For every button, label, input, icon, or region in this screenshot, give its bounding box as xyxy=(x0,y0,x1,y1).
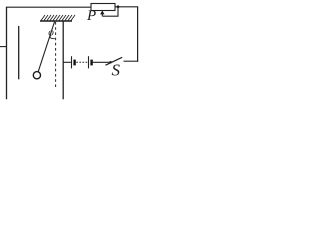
wire (stub at left edge) xyxy=(0,46,7,48)
junction dot (wiper tie to right terminal) xyxy=(117,5,120,8)
wire (wiper to junction) xyxy=(102,7,118,16)
wire (right vertical) xyxy=(137,7,139,62)
pendulum string xyxy=(38,22,54,72)
battery cell 1 (long plate) xyxy=(71,56,73,68)
battery cell 2 (short thick plate) xyxy=(90,60,92,66)
wire (top horizontal from left plate to rheostat) xyxy=(6,6,91,8)
wire (dashed, omitted cells of battery) xyxy=(76,61,87,63)
capacitor plate (middle-left vertical plate) xyxy=(18,26,20,79)
switch S blade (open) xyxy=(106,57,123,65)
label S xyxy=(112,61,121,80)
wire (right plate to battery) xyxy=(63,61,71,63)
wire (rheostat right terminal to right vertical) xyxy=(115,6,138,8)
svg-text:P: P xyxy=(86,8,96,24)
battery cell 2 (long plate) xyxy=(88,56,90,68)
capacitor plate (right vertical plate) xyxy=(62,22,64,100)
rheostat P wiper arrow xyxy=(100,10,104,16)
ceiling support with hatching xyxy=(40,15,75,21)
svg-text:S: S xyxy=(112,61,121,80)
wire (battery to switch pivot) xyxy=(92,61,111,63)
wire (left vertical, left capacitor plate lead) xyxy=(6,7,8,99)
rheostat P (resistor box) xyxy=(91,4,115,11)
pendulum ball xyxy=(33,72,40,79)
switch S pivot junction xyxy=(109,61,111,63)
battery cell 1 (short thick plate) xyxy=(73,60,75,66)
vertical reference line (dashed) xyxy=(55,22,57,89)
svg-text:φ: φ xyxy=(48,28,54,39)
label P xyxy=(86,8,96,24)
wire (switch fixed contact stub) xyxy=(124,60,139,62)
label phi xyxy=(48,28,54,39)
angle arc xyxy=(49,38,54,39)
